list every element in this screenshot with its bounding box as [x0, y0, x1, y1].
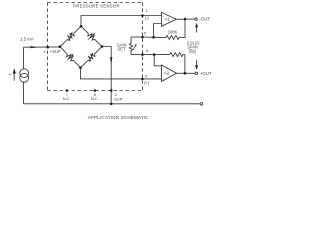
op-amp A2 — [162, 65, 177, 82]
node: pin2 wire joins -SUP rail — [110, 103, 113, 106]
current source I1 — [20, 69, 29, 78]
pin 3 node — [141, 78, 144, 81]
wire: pin 4 feed with current arrow — [24, 46, 61, 48]
resistor 100K (A1 feedback) — [154, 19, 185, 39]
pin 5 node — [141, 36, 144, 39]
svg-text:6: 6 — [146, 48, 149, 53]
svg-text:3: 3 — [145, 73, 148, 78]
svg-text:(-): (-) — [145, 16, 150, 21]
node: bridge top vertex — [80, 25, 83, 28]
pin 6 node — [141, 53, 144, 56]
wire: left rail from 1.5mA corner down to current source — [23, 47, 25, 69]
node: A1 feedback junction — [152, 36, 155, 39]
svg-text:N.C.: N.C. — [63, 96, 71, 101]
span annotation arrows — [196, 26, 198, 33]
wire: pin 5 to A1 feedback node — [143, 36, 154, 38]
pin 8 node — [94, 89, 97, 92]
svg-text:-SUP: -SUP — [113, 96, 123, 101]
svg-text:N.C.: N.C. — [91, 96, 99, 101]
svg-text:1: 1 — [145, 8, 148, 13]
terminal: -OUT — [195, 18, 198, 21]
node: A1 output junction — [184, 18, 187, 21]
svg-text:100K: 100K — [168, 29, 178, 34]
pin 2 node — [110, 89, 113, 92]
svg-text:5: 5 — [144, 31, 147, 36]
terminal: -SUP rail end — [200, 103, 203, 106]
op-amp A1 — [162, 12, 177, 26]
svg-text:-OUT: -OUT — [200, 16, 211, 21]
node: bridge right vertex — [101, 45, 104, 48]
wire: top bridge vertex to pin 1 to A1 top input — [81, 16, 162, 27]
node: bridge bottom vertex — [79, 66, 82, 69]
svg-text:SET: SET — [118, 46, 126, 51]
wire: feedback node up to A1 inverting input — [154, 24, 162, 38]
pin 4 node — [46, 46, 49, 49]
bridge strain gauge R (bottom-left arm) — [60, 47, 81, 68]
resistor 100K (A2 feedback, unlabeled) — [154, 53, 185, 74]
pin 1 node — [141, 14, 144, 17]
wire: pin 6 to A2 feedback node — [143, 54, 155, 56]
gain set resistor (internal, pins 5-6) — [129, 37, 132, 55]
bridge strain gauge R (top-left arm) — [60, 26, 81, 46]
svg-text:+OUT: +OUT — [200, 71, 212, 76]
node: A2 feedback junction — [153, 53, 156, 56]
wire: node down to A2 top input — [154, 55, 161, 66]
svg-text:4: 4 — [43, 49, 46, 54]
sensor package dashed outline — [48, 3, 143, 91]
bridge strain gauge R (top-right arm) — [81, 26, 102, 46]
node: A2 output junction — [184, 72, 187, 75]
svg-text:1.5 mA: 1.5 mA — [20, 37, 34, 42]
svg-text:(+): (+) — [144, 80, 150, 85]
svg-text:APPLICATION SCHEMATIC: APPLICATION SCHEMATIC — [88, 115, 150, 120]
svg-text:+SUP: +SUP — [50, 49, 61, 54]
node: bridge left vertex — [59, 45, 62, 48]
wire: bottom vertex to pin 3 to A2 lower input — [81, 68, 162, 79]
svg-text:(5g): (5g) — [189, 49, 197, 54]
svg-text:PRESSURE SENSOR: PRESSURE SENSOR — [73, 4, 120, 9]
terminal: +OUT — [195, 72, 198, 75]
bottom -SUP rail — [24, 103, 201, 105]
svg-text:A2: A2 — [164, 71, 170, 76]
pin 7 node — [66, 89, 69, 92]
current direction arrow at source — [13, 72, 15, 81]
svg-text:A1: A1 — [165, 16, 171, 21]
wire: bridge right vertex down to pin 2 and rail, with arrow — [102, 47, 111, 104]
bridge strain gauge R (bottom-right arm) — [81, 47, 103, 68]
